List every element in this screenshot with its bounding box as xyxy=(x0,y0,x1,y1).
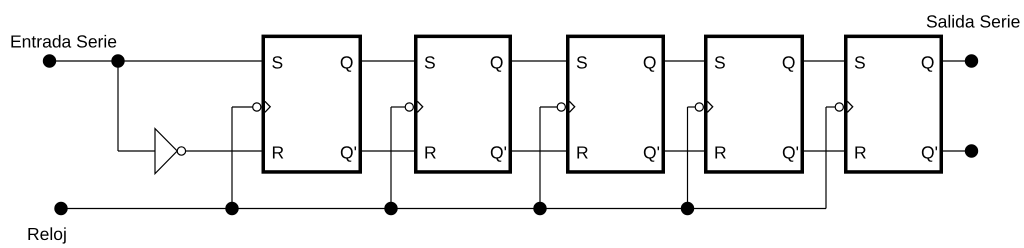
svg-text:S: S xyxy=(576,53,588,73)
svg-text:Q: Q xyxy=(340,53,354,73)
svg-text:Q': Q' xyxy=(782,143,799,163)
svg-text:R: R xyxy=(576,143,589,163)
svg-text:Q: Q xyxy=(782,53,796,73)
svg-text:Q: Q xyxy=(490,53,504,73)
svg-text:S: S xyxy=(272,53,284,73)
svg-text:S: S xyxy=(854,53,866,73)
svg-text:Q: Q xyxy=(643,53,657,73)
svg-text:Salida Serie: Salida Serie xyxy=(926,12,1020,32)
svg-text:Q: Q xyxy=(921,53,935,73)
svg-text:R: R xyxy=(272,143,285,163)
svg-text:Q': Q' xyxy=(643,143,660,163)
svg-text:Q': Q' xyxy=(921,143,938,163)
svg-text:S: S xyxy=(424,53,436,73)
svg-text:Q': Q' xyxy=(340,143,357,163)
svg-text:Entrada Serie: Entrada Serie xyxy=(10,32,117,52)
svg-text:S: S xyxy=(714,53,726,73)
svg-text:Q': Q' xyxy=(490,143,507,163)
svg-text:R: R xyxy=(714,143,727,163)
svg-text:R: R xyxy=(424,143,437,163)
svg-text:Reloj: Reloj xyxy=(27,224,67,244)
svg-text:R: R xyxy=(854,143,867,163)
